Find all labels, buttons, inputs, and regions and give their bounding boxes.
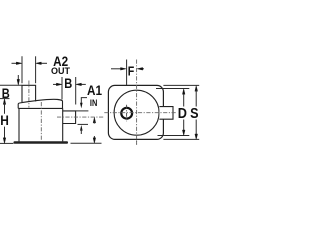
horizontal centerline (front view) [104, 112, 177, 114]
svg-text:B: B [2, 86, 10, 101]
left extension line: port top [0, 84, 22, 86]
hole vertical centerline [126, 105, 128, 122]
S extension lines (square top/bottom extended) [163, 84, 199, 86]
vertical centerline bottom stub [136, 140, 138, 144]
body (cylinder side view) [19, 108, 63, 141]
base flange (dark bar) [14, 141, 69, 143]
body centerline [40, 102, 42, 141]
mounting tab (right) [159, 107, 173, 120]
D dimension line and arrows [182, 89, 185, 136]
A2 arrows [12, 62, 48, 65]
top port (outlet) left view [22, 85, 36, 102]
base bottom extension line (right) [71, 142, 102, 144]
A2 extension lines [21, 56, 23, 83]
side port top edge extension [76, 110, 89, 112]
left extension line: base bottom [0, 142, 13, 144]
rounded square (front view outline) [108, 85, 163, 139]
left extension line: lid top [0, 98, 10, 100]
svg-text:IN: IN [90, 98, 97, 109]
side port centerline [57, 116, 104, 118]
A1 leader arrow [80, 98, 87, 109]
svg-text:B: B [64, 76, 72, 91]
F extension line [126, 60, 128, 86]
svg-text:S: S [190, 106, 199, 122]
svg-text:H: H [0, 113, 9, 128]
S dimension line and arrows [195, 86, 198, 140]
dimension B (left) arrow [17, 75, 20, 85]
svg-text:OUT: OUT [51, 66, 71, 76]
side port bottom edge extension [78, 123, 89, 125]
top port centerline [28, 81, 30, 108]
F arrows [111, 68, 144, 71]
B (right) arrows [53, 83, 86, 86]
A1 lower arrow (points up at port bottom) [80, 125, 83, 134]
large circle (body front) [114, 90, 159, 135]
D extension lines [156, 88, 189, 90]
lid (cap) of body [18, 99, 63, 108]
side port (inlet) [63, 111, 76, 124]
svg-text:A1: A1 [87, 82, 102, 98]
B (right) extension lines [61, 77, 63, 100]
vertical centerline (front view) [136, 60, 138, 145]
svg-text:D: D [178, 106, 187, 122]
small hole (left, thick ring) [121, 108, 132, 119]
unlabeled vertical dimension (port centerline to base) [93, 117, 96, 143]
dimension H line and arrows [3, 99, 6, 144]
svg-text:F: F [128, 63, 135, 78]
